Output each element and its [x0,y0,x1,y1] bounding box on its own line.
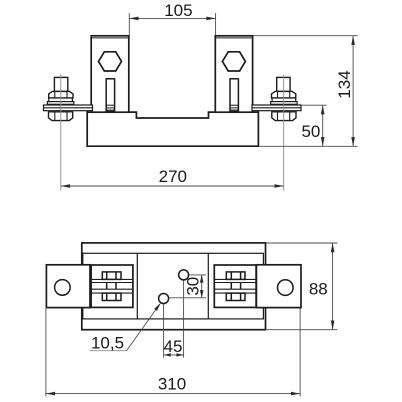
dimension 30 [169,275,206,298]
slot right [230,79,238,112]
contact stand left [91,36,129,112]
contact block right [214,265,256,307]
terminal pad left [46,265,90,308]
washer right [272,98,296,102]
washer wide left [47,102,73,105]
terminal hole left [55,280,71,296]
dimension 88 [266,243,338,330]
dimension 270 [61,185,284,187]
bolt shaft right [277,77,290,91]
leader 10,5 [127,305,160,351]
svg-text:30: 30 [183,277,202,296]
nut upper right [272,91,296,98]
nut lower right [272,112,296,121]
svg-text:270: 270 [159,167,187,186]
svg-text:105: 105 [164,1,192,20]
platform step line right (plan) [207,253,209,319]
svg-text:88: 88 [309,280,328,299]
bolt head hex right [222,52,245,71]
svg-text:10,5: 10,5 [91,333,124,352]
slot left [106,79,114,112]
terminal bar left [44,105,93,111]
bolt shaft left [54,77,67,91]
terminal bar right [252,105,301,111]
mounting hole upper [179,270,189,280]
svg-text:45: 45 [164,337,183,356]
dimension 105 [129,13,215,35]
contact block left [91,265,133,307]
base body (front view) [87,111,258,146]
mounting hole lower [159,294,169,304]
base outer outline (plan) [82,243,266,330]
terminal pad right [256,265,301,308]
dimension 45 [164,281,184,358]
nut lower left [49,112,73,121]
washer left [49,98,73,102]
base inner outline (plan) [83,253,264,319]
nut upper left [49,91,73,98]
centerline left bolt [60,75,62,191]
svg-text:134: 134 [335,70,354,98]
svg-text:310: 310 [158,374,186,393]
terminal hole right [278,280,294,296]
dimension 50 [301,105,327,146]
platform step line left (plan) [136,253,138,319]
svg-text:50: 50 [301,122,320,141]
dimension 134 [253,36,358,147]
centerline right bolt [283,75,285,191]
washer wide right [271,102,297,105]
contact stand right [215,36,252,112]
dimension 310 [46,308,300,397]
bolt head hex left [99,52,122,71]
